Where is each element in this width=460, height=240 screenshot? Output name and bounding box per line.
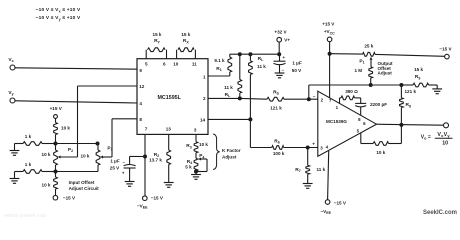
svg-text:3: 3 (320, 146, 323, 151)
svg-text:R9: R9 (415, 74, 420, 80)
svg-text:−10 V ≤ Vx ≤ +10 V: −10 V ≤ Vx ≤ +10 V (36, 7, 81, 13)
svg-text:Input Offset: Input Offset (69, 180, 95, 185)
node pin 14 RL junction (248, 117, 252, 121)
svg-text:K Factor: K Factor (222, 148, 241, 153)
wire pin 14 to RL (208, 118, 250, 120)
svg-text:100 k: 100 k (273, 151, 285, 156)
svg-text:10 k: 10 k (81, 154, 90, 159)
wire to 25V bypass cap (130, 155, 145, 157)
wire 50V cap to ground (279, 65, 281, 73)
ground upper 1k (14, 144, 16, 151)
svg-text:13.7 k: 13.7 k (149, 157, 162, 162)
wire to op-amp pin 2 (309, 98, 318, 100)
svg-text:15 k: 15 k (414, 67, 423, 72)
svg-text:1 µF: 1 µF (110, 158, 119, 163)
power terminal -15 V offset supply (53, 195, 58, 200)
P3 wiper arrow (102, 156, 112, 158)
svg-text:V+: V+ (284, 37, 290, 42)
svg-text:15 k: 15 k (181, 32, 190, 37)
resistor R7 11 k (307, 148, 309, 166)
wire Vy to pin 4 (15, 101, 137, 103)
svg-text:14: 14 (200, 117, 206, 122)
node P3 top junction (96, 142, 100, 146)
svg-text:+15 V: +15 V (50, 106, 63, 111)
svg-text:50 V: 50 V (292, 68, 302, 73)
resistor R1 9.1 k (229, 54, 231, 57)
svg-text:R8: R8 (406, 102, 411, 108)
wire pin 8 from P3 wiper (112, 118, 137, 120)
wire +15V to R divider (55, 118, 57, 122)
svg-text:Adjust: Adjust (378, 71, 393, 76)
resistor RS 121 k (240, 97, 267, 100)
svg-text:+VCC: +VCC (324, 29, 335, 35)
svg-text:RX: RX (183, 38, 189, 44)
svg-text:121 k: 121 k (270, 106, 282, 111)
compensation resistor 390 ohm (339, 98, 341, 103)
power terminal -15 V right (445, 54, 450, 59)
wire offset node rail (309, 84, 402, 86)
wire P2 bottom to node B (55, 165, 57, 177)
svg-text:11: 11 (192, 62, 197, 67)
node R4 bottom junction (194, 170, 198, 174)
svg-text:−: − (122, 160, 125, 165)
svg-text:10: 10 (442, 141, 448, 147)
P1 wiper arrow (370, 60, 372, 67)
resistor R8 121 k (400, 85, 402, 98)
wire Vcc to op-amp pin 7 (329, 42, 331, 98)
svg-text:RL: RL (258, 56, 264, 62)
svg-text:8: 8 (139, 117, 142, 122)
svg-text:−: − (313, 95, 316, 100)
svg-text:25 V: 25 V (110, 166, 120, 171)
node Vcc P1 junction (328, 52, 332, 56)
svg-text:11 k: 11 k (257, 64, 266, 69)
svg-text:−: − (282, 68, 285, 73)
svg-text:10 k: 10 k (42, 152, 51, 157)
svg-text:1: 1 (203, 74, 206, 79)
svg-text:1 M: 1 M (354, 68, 362, 73)
svg-text:7: 7 (145, 127, 148, 132)
svg-text:2: 2 (321, 98, 324, 103)
svg-text:9: 9 (139, 68, 142, 73)
wire divider to -15V terminal (55, 189, 57, 195)
svg-text:+: + (122, 170, 125, 175)
svg-text:Vy: Vy (8, 90, 13, 96)
capacitor 1 uF 50 V bypass (279, 54, 281, 61)
resistor RL 11 k on pin 14 (249, 54, 251, 61)
IC U1 MC1595L body (137, 59, 208, 135)
svg-text:8: 8 (358, 117, 361, 122)
svg-text:Adjust: Adjust (222, 154, 237, 159)
wire cap to ground (129, 168, 131, 181)
svg-text:1 k: 1 k (25, 134, 32, 139)
svg-text:10: 10 (173, 62, 179, 67)
svg-text:25 k: 25 k (364, 44, 373, 49)
wire pin 3 stub (195, 134, 197, 141)
svg-text:11 k: 11 k (224, 85, 233, 90)
wire pin 14 node down to R6 (249, 119, 251, 147)
svg-text:9.1 k: 9.1 k (214, 58, 225, 63)
wire 390 to 2200pF (355, 97, 361, 99)
svg-text:15 k: 15 k (153, 32, 162, 37)
ground R9 (436, 85, 438, 89)
power terminal -15 V op-amp VEE (325, 200, 330, 205)
svg-text:2: 2 (203, 96, 206, 101)
svg-text:2200 pF: 2200 pF (370, 102, 387, 107)
svg-text:VxVy: VxVy (437, 132, 450, 138)
node pin7 bypass junction (143, 155, 147, 159)
svg-text:−15 V: −15 V (151, 195, 164, 200)
output terminal Vo (444, 123, 449, 128)
power terminal -15 V VEE (143, 196, 148, 201)
svg-text:−15 V: −15 V (63, 196, 76, 201)
svg-text:−VEE: −VEE (137, 204, 148, 210)
resistor 1 k lower bias (15, 171, 24, 173)
wire pin 7 down to -VEE (144, 134, 146, 195)
node 1M bottom (369, 83, 373, 87)
ground 25V cap (125, 181, 135, 183)
ground R7 (303, 183, 313, 185)
potentiometer P2 10 k (54, 150, 58, 165)
resistor R2 13.7 k (167, 150, 171, 165)
ground 50V cap (275, 72, 285, 74)
svg-text:SeekIC.com: SeekIC.com (423, 210, 457, 216)
svg-text:+32 V: +32 V (274, 30, 287, 35)
wire op-amp output (377, 124, 444, 125)
wire node B to P3 bottom (56, 171, 99, 173)
svg-text:RS: RS (273, 90, 279, 96)
resistor 1 k upper bias (15, 143, 24, 145)
P4 wiper arrow and loop to bottom (200, 158, 207, 160)
wire divider to node A (55, 135, 57, 151)
svg-text:10 k: 10 k (376, 150, 385, 155)
resistor R3 10 k (194, 142, 198, 153)
ground K-factor (191, 174, 201, 176)
svg-text:RL: RL (225, 92, 231, 98)
svg-text:121 k: 121 k (405, 89, 417, 94)
potentiometer P1 25 k output offset (330, 53, 363, 55)
wire pin 2 to RL (208, 97, 240, 99)
wire vertical P3 wiper riser (111, 119, 113, 157)
svg-text:P1: P1 (359, 59, 364, 65)
svg-text:P2: P2 (68, 147, 73, 153)
svg-text:Vx: Vx (8, 57, 13, 63)
svg-text:PRINT SHARP AND: PRINT SHARP AND (4, 213, 47, 217)
svg-text:4: 4 (326, 144, 329, 149)
capacitor 2200 pF (355, 102, 366, 104)
resistor 1 M offset feed (369, 67, 373, 78)
svg-text:R3: R3 (186, 143, 191, 149)
P2 wiper arrow (60, 156, 78, 158)
svg-text:4: 4 (139, 101, 142, 106)
svg-text:6: 6 (363, 121, 366, 126)
wire pin 13 stub (168, 134, 170, 150)
node rail RL1 (238, 52, 242, 56)
node rail RL2 (248, 52, 252, 56)
wire pin 1 to R1 (208, 75, 230, 77)
resistor RL 11 k on pin 2 (239, 54, 241, 79)
svg-text:390 Ω: 390 Ω (345, 89, 358, 94)
svg-text:−15 V: −15 V (439, 47, 452, 52)
resistor 10 k feedback (400, 125, 402, 144)
svg-text:R1: R1 (216, 66, 221, 72)
svg-text:13: 13 (166, 127, 172, 132)
resistor 10 k bottom of offset divider (54, 177, 58, 189)
svg-text:MC1539G: MC1539G (326, 119, 347, 124)
resistor 10 k top of offset divider (54, 123, 58, 135)
node pin 2 RL junction (238, 96, 242, 100)
wire vertical P2 wiper riser (77, 86, 79, 157)
node B junction (54, 170, 58, 174)
wire Vx to pin 9 (15, 68, 137, 69)
svg-text:−VEE: −VEE (321, 209, 332, 215)
svg-text:12: 12 (139, 84, 145, 89)
svg-text:1: 1 (336, 105, 339, 110)
node op-amp non-inverting input (306, 146, 310, 150)
ground lower 1k (14, 172, 16, 179)
svg-text:10 k: 10 k (61, 126, 70, 131)
svg-text:+15 V: +15 V (322, 21, 335, 26)
svg-text:10 k: 10 k (42, 183, 51, 188)
capacitor 1 uF 25 V (124, 165, 136, 166)
svg-text:−15 V: −15 V (334, 200, 347, 205)
wire V+ down to rail (278, 42, 280, 54)
svg-text:3: 3 (194, 128, 197, 133)
wire node A to P3 top (56, 143, 99, 145)
svg-text:Vo =: Vo = (421, 134, 431, 140)
potentiometer P3 10 k (97, 144, 99, 151)
node V+ rail junction (277, 52, 281, 56)
svg-text:R7: R7 (295, 167, 300, 173)
node op-amp inverting input (307, 97, 311, 101)
node A junction (54, 142, 58, 146)
brace K factor adjust (213, 134, 220, 170)
wire feedback to pin 5 (360, 133, 362, 144)
svg-text:+: + (283, 55, 286, 60)
node output junction (399, 123, 403, 127)
resistor R6 100 k (250, 147, 271, 149)
wire R2 to ground (168, 165, 170, 183)
svg-text:5 k: 5 k (185, 165, 192, 170)
svg-text:6: 6 (163, 62, 166, 67)
wire op-amp pin 4 to -VEE (328, 151, 329, 200)
svg-text:10 k: 10 k (199, 142, 208, 147)
svg-text:RY: RY (154, 38, 160, 44)
svg-text:R6: R6 (274, 138, 279, 144)
resistor R9 15 k to ground (401, 84, 413, 86)
svg-text:11 k: 11 k (317, 167, 326, 172)
op-amp U2 MC1539G (318, 91, 377, 156)
node R8 top (399, 83, 403, 87)
svg-text:−10 V ≤ Vy ≤ +10 V: −10 V ≤ Vy ≤ +10 V (36, 15, 81, 21)
svg-text:1 µF: 1 µF (292, 60, 301, 65)
svg-text:1 k: 1 k (25, 162, 32, 167)
wire R3 to R4 (195, 153, 197, 159)
potentiometer R4 5 k (P4) (194, 158, 198, 171)
ground R2 (164, 182, 174, 184)
svg-text:+: + (312, 143, 315, 148)
wire +32V rail (230, 53, 279, 55)
wire 2200pF to pin 8 (360, 107, 362, 116)
svg-text:Adjust Circuit: Adjust Circuit (69, 186, 100, 191)
svg-text:5: 5 (145, 62, 148, 67)
svg-text:MC1595L: MC1595L (157, 95, 181, 101)
wire pin 12 from P2 wiper (78, 85, 138, 87)
svg-text:5: 5 (357, 128, 360, 133)
